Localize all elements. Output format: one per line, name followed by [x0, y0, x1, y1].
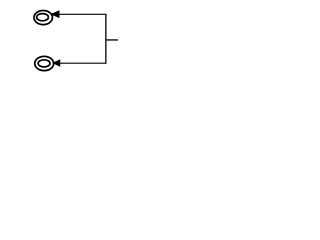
arrowhead into J2 [53, 60, 60, 66]
connector J1 inner ellipse [37, 14, 49, 21]
wire: top arrow shaft [57, 13, 106, 15]
connector J1 outer ellipse [34, 10, 53, 24]
wire: vertical bus [105, 14, 107, 64]
wire: bottom arrow shaft [58, 62, 106, 64]
connector J2 outer ellipse [35, 56, 54, 70]
node stub [106, 39, 118, 41]
arrowhead into J1 [52, 11, 60, 17]
connector J2 inner ellipse [38, 60, 50, 67]
